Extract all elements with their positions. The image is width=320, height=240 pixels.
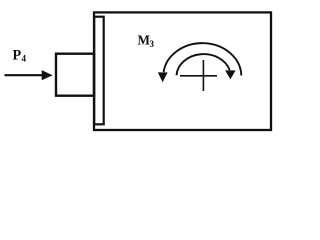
moment arc inner <box>177 54 230 75</box>
svg-text:4: 4 <box>22 54 27 64</box>
svg-text:3: 3 <box>150 39 155 49</box>
force arrow P4 shaft <box>5 74 44 76</box>
moment arc outer <box>164 43 242 75</box>
svg-text:P: P <box>13 47 22 63</box>
moment arrowhead right <box>225 70 236 79</box>
force arrow P4 head <box>42 70 53 80</box>
center cross vertical <box>202 60 204 91</box>
plate <box>94 17 104 125</box>
piston block <box>56 54 94 96</box>
housing box <box>94 12 271 130</box>
center cross horizontal <box>180 75 217 77</box>
moment arrowhead left <box>158 72 168 82</box>
